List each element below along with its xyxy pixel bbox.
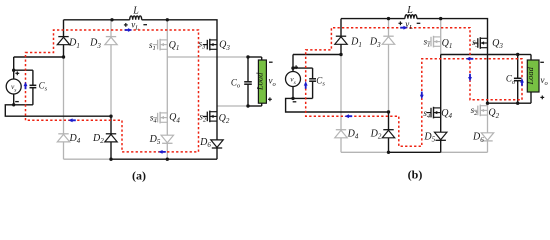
svg-text:(b): (b) <box>408 168 423 182</box>
svg-text:L: L <box>406 5 413 16</box>
svg-text:L: L <box>132 5 139 16</box>
svg-text:Load: Load <box>254 72 264 91</box>
svg-text:(a): (a) <box>132 169 146 183</box>
svg-text:Load: Load <box>525 66 535 85</box>
